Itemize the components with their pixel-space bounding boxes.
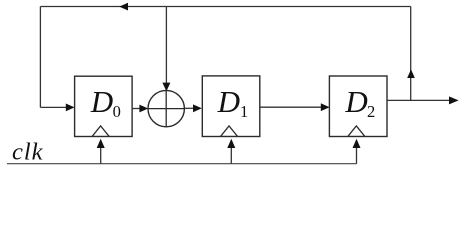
wire D2 output [387, 99, 456, 101]
flip-flop D2 box [329, 76, 387, 137]
wire clk rail [7, 163, 357, 165]
arrowhead into D2 [321, 103, 330, 111]
svg-text:D: D [90, 84, 113, 119]
wire left feedback vertical [39, 7, 41, 108]
xor cross vertical [165, 90, 167, 126]
wire D0 output to XOR [132, 108, 145, 110]
arrowhead into D0 [66, 104, 75, 112]
wire D0 input [40, 106, 71, 108]
svg-text:2: 2 [367, 102, 375, 121]
svg-text:1: 1 [240, 102, 248, 121]
arrowhead into D1 [193, 104, 202, 112]
arrowhead clk D2 [353, 139, 361, 148]
wire XOR top tap vertical [165, 7, 167, 92]
wire clk branch D0 [100, 141, 102, 164]
arrowhead clk D1 [227, 139, 235, 148]
xor gate U1 circle [148, 90, 184, 126]
clock triangle D0 [92, 126, 109, 136]
wire D1 output to D2 [260, 106, 327, 108]
arrowhead into XOR left [139, 105, 148, 113]
arrowhead output right [449, 96, 459, 104]
flip-flop D0 box [75, 76, 133, 136]
flip-flop D1 box [202, 76, 259, 137]
svg-text:D: D [344, 84, 367, 119]
svg-text:clk: clk [12, 139, 44, 166]
xor cross horizontal [148, 108, 184, 110]
svg-text:D: D [217, 84, 240, 119]
wire XOR output to D1 [184, 107, 198, 109]
arrowhead left-pointing on top rail [119, 3, 128, 11]
arrowhead up on right vertical [407, 69, 415, 78]
svg-text:0: 0 [113, 102, 121, 121]
arrowhead down into XOR top [162, 83, 170, 92]
arrowhead clk D0 [97, 139, 105, 148]
wire top feedback rail [40, 6, 410, 8]
wire right feedback vertical [410, 7, 412, 101]
clock triangle D2 [348, 126, 365, 136]
wire clk branch D1 [230, 141, 232, 164]
wire clk branch D2 [356, 141, 358, 164]
clock triangle D1 [221, 126, 238, 136]
